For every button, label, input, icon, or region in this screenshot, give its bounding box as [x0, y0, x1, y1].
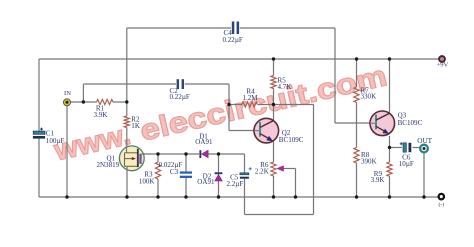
svg-text:4.7K: 4.7K — [278, 83, 293, 91]
svg-text:1K: 1K — [131, 122, 141, 130]
svg-text:OUT: OUT — [417, 137, 432, 145]
svg-text:330K: 330K — [361, 93, 378, 101]
svg-text:100K: 100K — [139, 178, 156, 186]
svg-text:3.9K: 3.9K — [371, 176, 386, 184]
svg-text:C1: C1 — [46, 129, 55, 137]
svg-text:OA91: OA91 — [197, 178, 215, 186]
svg-text:10µF: 10µF — [399, 160, 414, 168]
svg-text:2.2µF: 2.2µF — [227, 180, 244, 188]
svg-text:C3: C3 — [170, 168, 179, 176]
svg-text:2.2K: 2.2K — [255, 168, 270, 176]
svg-text:IN: IN — [64, 90, 71, 97]
svg-text:+9V: +9V — [437, 61, 449, 68]
svg-text:100µF: 100µF — [46, 137, 65, 145]
svg-text:3.9K: 3.9K — [94, 111, 109, 119]
svg-text:0.22µF: 0.22µF — [223, 36, 243, 44]
svg-text:0.22µF: 0.22µF — [170, 93, 190, 101]
svg-text:2N3819: 2N3819 — [96, 161, 119, 169]
svg-text:390K: 390K — [361, 158, 378, 166]
svg-text:(-): (-) — [439, 201, 445, 208]
svg-text:OA91: OA91 — [195, 138, 213, 146]
svg-text:1.2M: 1.2M — [242, 94, 258, 102]
svg-text:BC109C: BC109C — [398, 119, 423, 127]
svg-text:BC109C: BC109C — [279, 136, 304, 144]
